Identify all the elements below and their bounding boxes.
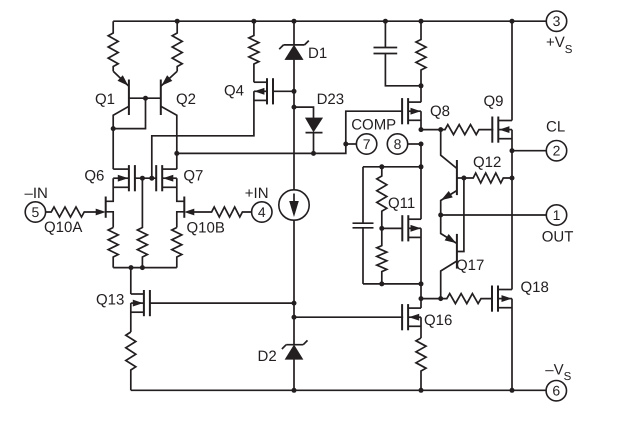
junction dot top rail / Q9 drain	[510, 19, 515, 24]
terminal pin 6 (-Vs)	[546, 381, 566, 401]
wire Q11 gate	[382, 227, 403, 229]
junction dot Q11 gate node	[379, 226, 384, 231]
resistor R (input tail)	[137, 178, 147, 267]
wire Q9 source	[511, 130, 513, 290]
resistor R (Q10B source)	[172, 228, 182, 268]
svg-text:D1: D1	[308, 45, 327, 62]
junction dot top rail / center rail	[292, 19, 297, 24]
emitter arrow Q12 (NPN)	[442, 192, 452, 200]
svg-text:7: 7	[363, 136, 371, 152]
junction dot pin8 / mid rail	[419, 142, 424, 147]
svg-text:D2: D2	[258, 348, 277, 365]
terminal pin 5 (-IN)	[25, 202, 45, 222]
wire Q12 emitter	[441, 191, 457, 216]
junction dot Q12 base R / right rail	[510, 176, 515, 181]
svg-text:+IN: +IN	[245, 185, 269, 202]
transistor Q9	[492, 117, 512, 143]
gate arrow Q10B	[185, 209, 194, 215]
svg-text:Q6: Q6	[84, 168, 104, 185]
svg-text:Q8: Q8	[430, 103, 450, 120]
svg-text:Q13: Q13	[96, 292, 124, 309]
wire Q18 source	[511, 299, 513, 391]
junction dot Q11 bottom / mid rail	[419, 281, 424, 286]
wire center rail mid	[293, 60, 295, 190]
wire COMP line	[177, 111, 403, 153]
terminal pin 7 (COMP 7)	[356, 134, 376, 154]
wire Q2 emitter	[161, 71, 177, 86]
wire Q11 source	[420, 228, 422, 284]
wire Q4 gate	[273, 90, 294, 92]
emitter arrow Q1 (PNP)	[118, 76, 128, 85]
junction dot Q12 base	[461, 176, 466, 181]
wire Q16 gate	[294, 316, 403, 318]
wire base-collector tie	[113, 98, 145, 128]
capacitor C (comp)	[374, 21, 422, 86]
resistor R (Q1 load)	[108, 21, 118, 71]
wire Q8 drain	[420, 86, 422, 102]
junction dot Q4 gate / center rail	[292, 89, 297, 94]
wire Q11 top node	[363, 166, 421, 168]
junction dot top rail / R3	[251, 19, 256, 24]
junction dot Q11 node / mid rail	[419, 164, 424, 169]
transistor Q1	[128, 80, 130, 116]
transistor Q12	[456, 160, 458, 195]
resistor R (-IN)	[46, 207, 97, 217]
junction dot Q9 source / CL	[510, 148, 515, 153]
resistor R (Q4 source)	[249, 21, 259, 82]
svg-text:Q17: Q17	[456, 257, 484, 274]
wire tail join	[113, 267, 177, 269]
svg-text:Q4: Q4	[224, 83, 244, 100]
wire +Vs top rail	[113, 20, 546, 22]
wire mid rail (to Q16 drain)	[420, 284, 422, 308]
wire CL lead	[512, 150, 546, 152]
svg-text:COMP: COMP	[351, 117, 396, 134]
wire Q17 emitter	[441, 215, 457, 244]
svg-text:Q7: Q7	[183, 168, 203, 185]
gate arrow Q10A	[96, 209, 105, 215]
wire -Vs bottom rail	[131, 389, 547, 391]
svg-text:Q18: Q18	[521, 279, 549, 296]
svg-text:D23: D23	[317, 91, 345, 108]
junction dot base node	[143, 96, 148, 101]
wire center rail lower	[293, 220, 295, 345]
svg-text:5: 5	[32, 204, 40, 220]
junction dot D23 / COMP line	[311, 151, 316, 156]
wire Q17 collector	[441, 261, 457, 299]
transistor Q18	[492, 286, 512, 312]
junction dot center rail / Q13 gate	[292, 301, 297, 306]
junction dot top rail / compensation cap	[383, 19, 388, 24]
terminal pin 1 (OUT)	[546, 205, 566, 225]
terminal pin 2 (CL)	[546, 141, 566, 161]
junction dot output emitters	[438, 213, 443, 218]
junction dot gates / Q4 drain	[149, 176, 154, 181]
junction dot Q8 source node	[419, 127, 424, 132]
svg-text:8: 8	[394, 136, 402, 152]
svg-text:1: 1	[553, 207, 561, 223]
zener diode D2	[282, 340, 308, 359]
junction dot mid rail / Q18 gate line	[419, 296, 424, 301]
wire Q17 base tie	[457, 178, 464, 252]
transistor Q8	[402, 98, 421, 124]
resistor R (Q16 source)	[416, 338, 426, 390]
resistor R (Q9 gate)	[421, 125, 493, 135]
svg-text:Q10A: Q10A	[44, 219, 82, 236]
junction dot center rail / D23 branch	[292, 105, 297, 110]
svg-text:Q1: Q1	[95, 91, 115, 108]
junction dot top rail / R4	[419, 19, 424, 24]
wire D23 cathode branch	[294, 107, 314, 118]
svg-text:Q12: Q12	[473, 154, 501, 171]
transistor Q16	[402, 304, 421, 330]
transistor Q17	[456, 234, 458, 269]
junction dot Q11 bottom / lower R	[379, 281, 384, 286]
wire D2 anode to -Vs rail	[293, 359, 295, 390]
wire pin 8 lead	[408, 143, 421, 145]
junction dot tail / mid resistor	[140, 265, 145, 270]
resistor R (Q12 base)	[464, 173, 512, 183]
junction dot Q2 collector / COMP line	[174, 151, 179, 156]
wire Q13 gate	[151, 302, 295, 304]
transistor Q13	[131, 290, 150, 316]
svg-text:3: 3	[553, 13, 561, 29]
wire Q1-Q2 base link	[129, 97, 161, 99]
zener diode D1	[279, 41, 309, 60]
junction dot tail / Q13	[129, 265, 134, 270]
junction dot gates / tail resistor	[140, 176, 145, 181]
transistor Q2	[160, 80, 162, 116]
wire Q9 drain	[511, 21, 513, 120]
wire Q1 collector	[113, 106, 129, 169]
resistor R (Q8 drain)	[416, 21, 426, 86]
wire Q8 source	[420, 111, 422, 129]
transistor Q4	[254, 78, 273, 104]
svg-text:OUT: OUT	[542, 229, 574, 246]
wire mid rail (pin8 to Q11 drain)	[420, 144, 422, 219]
wire Q2 collector	[161, 106, 177, 169]
wire Q11 bottom node	[363, 283, 421, 285]
transistor Q10B	[177, 178, 185, 227]
junction dot -Vs rail / Q16 R	[419, 388, 424, 393]
transistor Q10A	[106, 178, 114, 227]
wire Q16 source	[420, 317, 422, 338]
junction dot Q18 gate line / Q17 collector	[438, 296, 443, 301]
resistor R (Q2 load)	[172, 21, 182, 71]
junction dot Q9-gate line / Q12 collector	[438, 127, 443, 132]
resistor R (Q10A source)	[108, 228, 118, 268]
junction dot top rail / R2	[175, 19, 180, 24]
svg-text:2: 2	[553, 143, 561, 159]
wire Q1 emitter	[113, 71, 129, 86]
svg-text:Q10B: Q10B	[187, 220, 225, 237]
transistor Q11	[402, 215, 421, 241]
resistor R (Q11 upper)	[377, 167, 387, 229]
svg-text:6: 6	[552, 383, 560, 399]
svg-text:–IN: –IN	[25, 185, 48, 202]
svg-text:Q16: Q16	[424, 312, 452, 329]
svg-text:CL: CL	[546, 119, 565, 136]
junction dot Q1 collector / base tie	[111, 126, 116, 131]
junction dot center rail / Q16 gate	[292, 315, 297, 320]
junction dot cap/R/Q8 drain	[419, 83, 424, 88]
wire D23 anode	[313, 133, 315, 154]
capacitor C (Q11)	[353, 167, 374, 284]
terminal pin 3 (+Vs)	[546, 11, 566, 31]
wire Q6-Q7 gate link	[135, 177, 156, 179]
current source I1	[279, 190, 309, 220]
emitter arrow Q17 (PNP)	[445, 235, 455, 243]
junction dot COMP / pin7 branch	[343, 142, 348, 147]
wire OUT line	[441, 214, 547, 216]
resistor R (Q18 gate)	[441, 294, 493, 304]
svg-text:Q11: Q11	[388, 195, 415, 212]
svg-text:Q9: Q9	[484, 93, 504, 110]
wire Q13 drain	[130, 268, 132, 294]
terminal pin 8 (COMP 8)	[387, 134, 407, 154]
svg-text:4: 4	[258, 204, 266, 220]
wire Q12 base	[457, 177, 464, 179]
wire Q12 collector	[441, 130, 457, 169]
junction dot Q11 node / upper R	[379, 164, 384, 169]
junction dot -Vs rail / Q18	[510, 388, 515, 393]
transistor Q7	[156, 165, 177, 191]
terminal pin 4 (+IN)	[252, 202, 272, 222]
transistor Q6	[113, 165, 135, 191]
resistor R (Q13 source)	[126, 332, 136, 390]
emitter arrow Q2 (PNP)	[162, 76, 172, 85]
diode D23	[306, 118, 323, 133]
junction dot -Vs rail / D2	[292, 388, 297, 393]
wire pin 7 lead	[346, 143, 357, 145]
wire Q4 drain to input cascode gates	[152, 91, 254, 178]
resistor R (+IN)	[193, 207, 252, 217]
resistor R (Q11 lower)	[377, 228, 387, 284]
svg-text:Q2: Q2	[176, 91, 196, 108]
wire Q18 gate node	[421, 298, 441, 300]
wire center rail top	[293, 21, 295, 45]
wire Q13 source	[130, 303, 132, 332]
